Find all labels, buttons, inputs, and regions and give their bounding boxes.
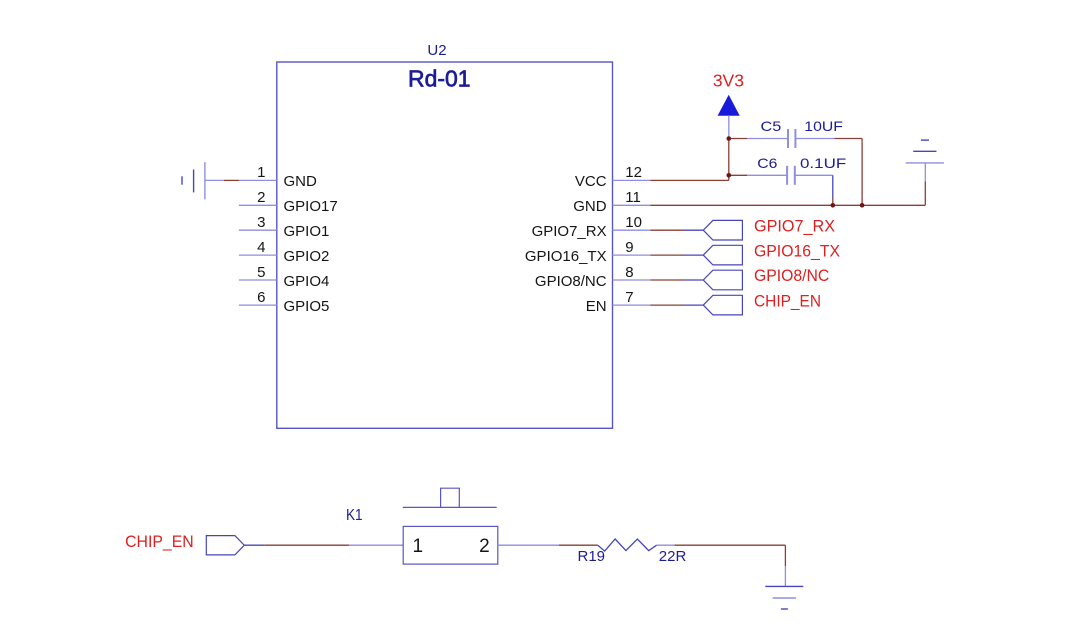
wire VCC pin 12 to 3V3 stem (650, 179, 729, 181)
power symbol 3V3 (713, 71, 744, 139)
capacitor C5 (729, 129, 835, 148)
capacitor C6 (729, 166, 833, 185)
svg-text:GPIO1: GPIO1 (284, 223, 330, 240)
svg-text:GPIO8/NC: GPIO8/NC (754, 266, 829, 285)
switch K1 button bar (403, 506, 497, 508)
svg-text:VCC: VCC (575, 173, 607, 190)
wire pin 9 to GPIO16_TX flag (650, 254, 703, 256)
svg-text:Rd-01: Rd-01 (408, 66, 471, 92)
wire right ground stem lower part (924, 182, 926, 206)
svg-text:12: 12 (625, 164, 642, 181)
pin 2 stub (239, 204, 277, 206)
svg-text:5: 5 (257, 264, 265, 281)
R19 right pin stub (657, 544, 675, 546)
resistor R19 zigzag (598, 539, 657, 551)
pin 4 stub (239, 254, 277, 256)
junction dot C5/GND row (860, 203, 865, 208)
ground symbol top right (906, 140, 944, 181)
pin 11 stub (GND) (613, 204, 651, 206)
svg-text:GPIO16_TX: GPIO16_TX (525, 248, 607, 265)
pin 7 stub (EN) (613, 304, 651, 306)
wire CHIP_EN to K1 pin 1 (264, 544, 349, 546)
wire 3V3 stem down to VCC row (728, 139, 730, 176)
wire C6 vertical down upper part (832, 175, 834, 198)
junction dot C6/GND row (831, 203, 836, 208)
svg-text:22R: 22R (659, 548, 687, 565)
wire jog up at 3V3 stem (728, 175, 730, 180)
svg-text:GPIO17: GPIO17 (284, 198, 338, 215)
svg-text:CHIP_EN: CHIP_EN (754, 291, 821, 310)
K1 pin 2 stub (498, 544, 559, 546)
svg-text:8: 8 (625, 264, 633, 281)
wire flag tip navy segment (244, 544, 264, 546)
IC U2 body (277, 62, 613, 428)
svg-text:GPIO5: GPIO5 (284, 298, 330, 315)
svg-text:7: 7 (625, 289, 633, 306)
pin 1 stub (GND) (239, 179, 277, 181)
junction dot 3V3/C5 (727, 136, 732, 141)
svg-text:3V3: 3V3 (713, 71, 744, 91)
svg-text:1: 1 (257, 164, 265, 181)
svg-text:1: 1 (413, 536, 424, 557)
svg-text:10UF: 10UF (804, 118, 843, 134)
wire C6 vertical down lower part (832, 198, 834, 205)
switch K1 button actuator (441, 488, 460, 507)
svg-text:GPIO4: GPIO4 (284, 273, 330, 290)
svg-text:C6: C6 (757, 155, 777, 171)
wire C5 vertical down to GND row (861, 139, 863, 206)
svg-text:EN: EN (586, 298, 607, 315)
svg-text:GPIO7_RX: GPIO7_RX (754, 216, 835, 235)
ground symbol left of pin 1 (182, 162, 224, 199)
svg-text:CHIP_EN: CHIP_EN (125, 532, 194, 551)
wire pin 10 to GPIO7_RX flag (650, 229, 703, 231)
ground symbol bottom right (765, 566, 803, 609)
pin 5 stub (239, 279, 277, 281)
svg-text:C5: C5 (761, 118, 782, 134)
wire C5 right to down corner (835, 138, 863, 140)
pin 8 stub (GPIO8/NC) (613, 279, 651, 281)
svg-text:4: 4 (257, 239, 265, 256)
wire pin 8 to GPIO8/NC flag (650, 279, 703, 281)
svg-text:R19: R19 (578, 548, 606, 565)
switch K1 body (403, 526, 498, 564)
junction dot 3V3/VCC row (727, 173, 732, 178)
pin 6 stub (239, 304, 277, 306)
svg-text:2: 2 (479, 536, 490, 557)
net flag CHIP_EN bottom left (206, 536, 244, 555)
net flag GPIO8/NC (703, 270, 742, 290)
svg-text:9: 9 (625, 239, 633, 256)
wire ground stem red part (784, 545, 786, 566)
pin 10 stub (GPIO7_RX) (613, 229, 651, 231)
svg-text:GPIO2: GPIO2 (284, 248, 330, 265)
wire GND row pin 11 to right ground (650, 204, 925, 206)
svg-text:GPIO7_RX: GPIO7_RX (532, 223, 607, 240)
svg-text:GPIO8/NC: GPIO8/NC (535, 273, 607, 290)
wire ground to pin 1 (224, 179, 239, 181)
pin 9 stub (GPIO16_TX) (613, 254, 651, 256)
wire K1 pin 2 to R19 (559, 544, 598, 546)
svg-text:GND: GND (573, 198, 607, 215)
svg-text:K1: K1 (346, 507, 363, 524)
net flag GPIO16_TX (703, 245, 742, 265)
svg-text:2: 2 (257, 189, 265, 206)
svg-text:11: 11 (625, 189, 641, 206)
svg-text:GPIO16_TX: GPIO16_TX (754, 241, 840, 260)
svg-text:3: 3 (257, 214, 265, 231)
pin 3 stub (239, 229, 277, 231)
net flag GPIO7_RX (703, 220, 742, 240)
svg-text:10: 10 (625, 214, 642, 231)
pin 12 stub (VCC) (613, 179, 651, 181)
net flag CHIP_EN right (703, 295, 742, 315)
wire R19 to ground corner (675, 544, 786, 546)
K1 pin 1 stub (349, 544, 403, 546)
svg-text:0.1UF: 0.1UF (800, 155, 846, 171)
svg-text:6: 6 (257, 289, 265, 306)
svg-text:U2: U2 (427, 42, 446, 59)
wire pin 7 to CHIP_EN flag (650, 304, 703, 306)
svg-text:GND: GND (284, 173, 318, 190)
